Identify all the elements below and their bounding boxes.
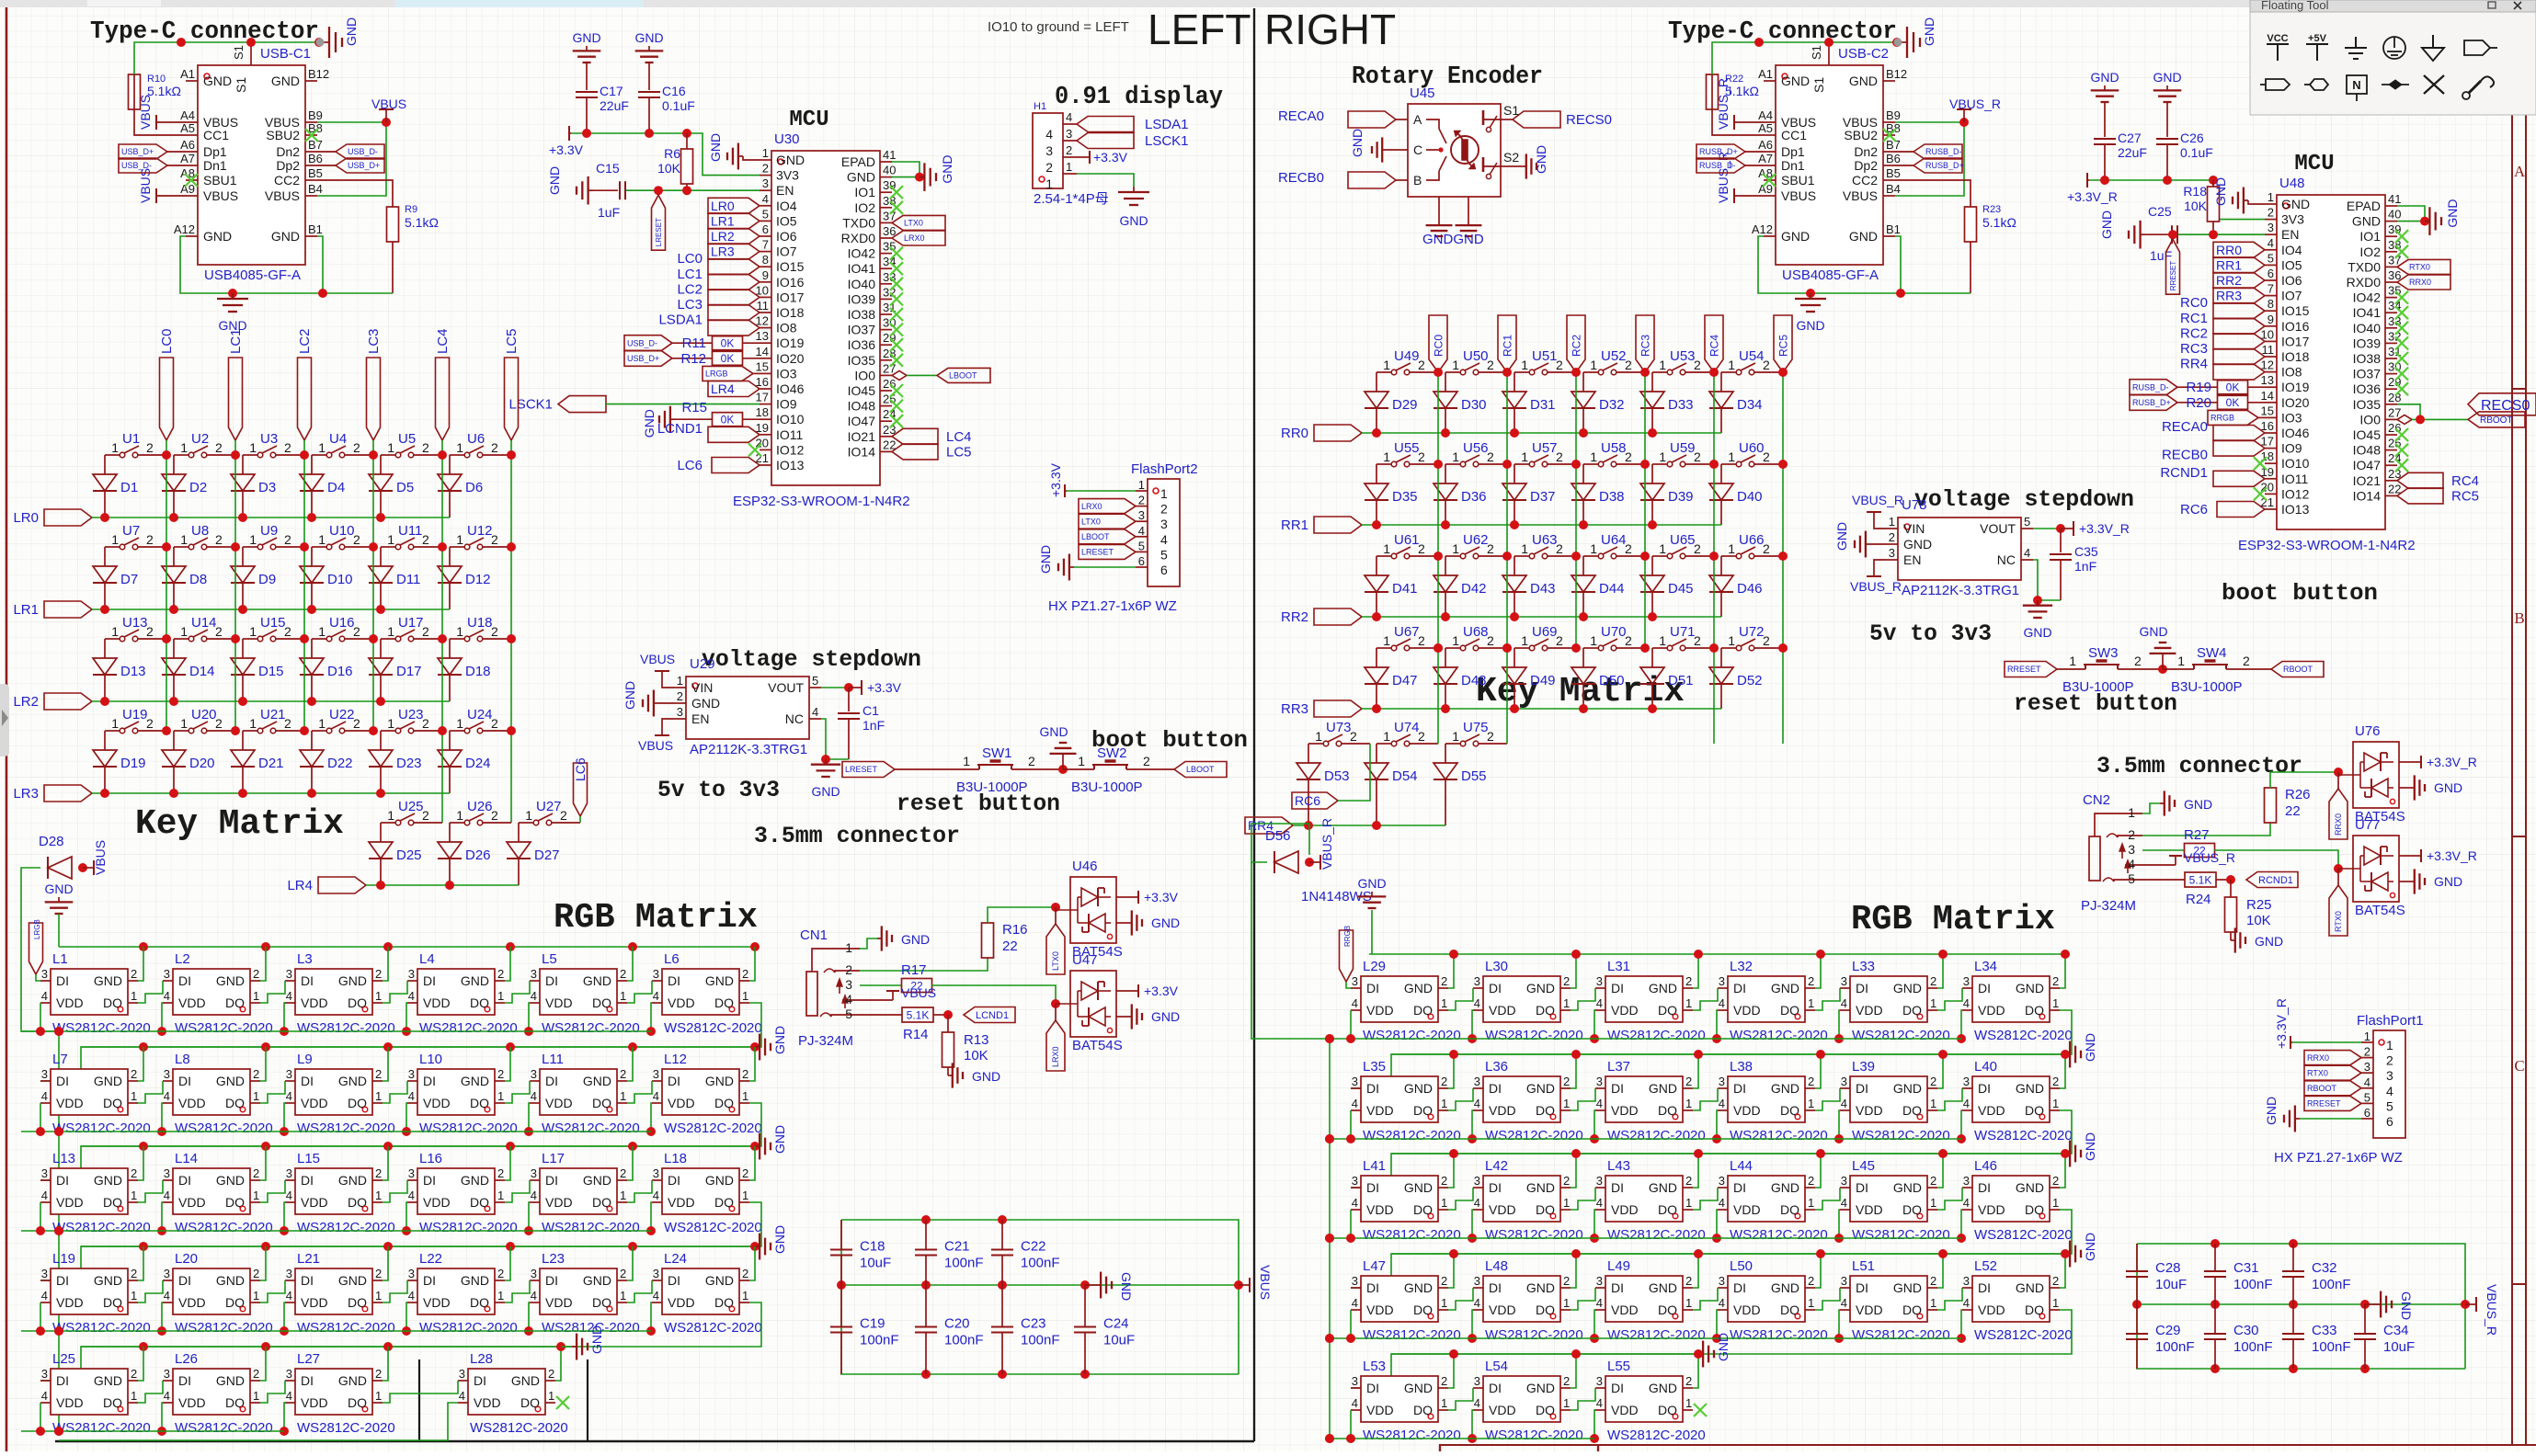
svg-text:VDD: VDD xyxy=(56,1295,84,1310)
svg-text:4: 4 xyxy=(1963,1097,1970,1110)
wire D56 to VBUS vertical xyxy=(1251,862,1330,1039)
net flag LC3 column header xyxy=(366,328,382,440)
svg-text:2: 2 xyxy=(253,1267,259,1280)
svg-text:B1: B1 xyxy=(1886,222,1901,236)
power flag +3.3V_R at VOUT xyxy=(2061,521,2130,536)
svg-text:GND: GND xyxy=(338,1373,367,1388)
svg-text:4: 4 xyxy=(1474,996,1480,1010)
diode D15 xyxy=(231,639,284,701)
svg-text:22uF: 22uF xyxy=(2118,145,2147,160)
svg-text:D37: D37 xyxy=(1530,489,1556,505)
svg-text:4: 4 xyxy=(1352,1296,1358,1310)
wire VDD bus row 2 (right RGB) xyxy=(1325,1134,1961,1143)
svg-text:SW4: SW4 xyxy=(2197,645,2227,661)
svg-text:0K: 0K xyxy=(721,414,735,427)
svg-text:41: 41 xyxy=(883,148,896,162)
svg-text:3: 3 xyxy=(1474,1075,1480,1088)
svg-text:WS2812C-2020: WS2812C-2020 xyxy=(297,1420,395,1436)
svg-text:IO9: IO9 xyxy=(2281,441,2302,456)
net flag LC1 column header xyxy=(228,328,244,440)
svg-text:U74: U74 xyxy=(1394,720,1420,735)
svg-text:SBU2: SBU2 xyxy=(1844,128,1878,142)
title 5v to 3v3 (right) xyxy=(1869,620,1992,647)
svg-text:U14: U14 xyxy=(191,615,217,631)
svg-text:3: 3 xyxy=(1596,1374,1603,1388)
resistor R13 10K xyxy=(942,1015,989,1075)
svg-text:1: 1 xyxy=(762,146,769,160)
svg-text:2: 2 xyxy=(2052,974,2059,988)
svg-text:3: 3 xyxy=(408,1067,415,1081)
diode D18 xyxy=(438,639,491,701)
svg-text:IO20: IO20 xyxy=(2281,395,2310,410)
svg-text:DI: DI xyxy=(423,1273,436,1288)
svg-text:4: 4 xyxy=(1352,1097,1358,1110)
svg-text:GND: GND xyxy=(772,1026,787,1054)
svg-text:4: 4 xyxy=(1474,1396,1480,1410)
svg-text:3: 3 xyxy=(1719,1075,1725,1088)
diode D56 1N4148WS xyxy=(1251,824,1372,904)
diode D3 xyxy=(231,455,276,518)
svg-text:100nF: 100nF xyxy=(944,1333,984,1348)
svg-text:RCND1: RCND1 xyxy=(2160,465,2208,481)
svg-text:2: 2 xyxy=(1685,1374,1692,1388)
svg-text:L5: L5 xyxy=(542,951,557,967)
svg-text:D13: D13 xyxy=(120,664,146,679)
svg-text:SW2: SW2 xyxy=(1097,745,1127,761)
svg-text:DI: DI xyxy=(56,1373,69,1388)
svg-text:4: 4 xyxy=(408,989,415,1003)
svg-text:WS2812C-2020: WS2812C-2020 xyxy=(1485,1428,1583,1443)
net flag USB_D+ (B6) xyxy=(317,158,384,173)
net flag LR1 at MCU xyxy=(708,213,760,229)
tool icon hexagon port xyxy=(2304,79,2328,90)
svg-text:DI: DI xyxy=(56,973,69,988)
svg-text:D50: D50 xyxy=(1599,673,1625,688)
svg-text:GND: GND xyxy=(2264,1097,2279,1125)
svg-text:R12: R12 xyxy=(680,351,706,367)
svg-text:BAT54S: BAT54S xyxy=(2355,903,2405,918)
key switch U26 xyxy=(450,799,511,825)
svg-text:R11: R11 xyxy=(682,336,706,351)
svg-text:GND: GND xyxy=(972,1069,1000,1084)
wire DQ wrap row 4 to row 5 xyxy=(40,1302,761,1381)
net flag RC3 at MCU xyxy=(2180,341,2265,365)
svg-text:3: 3 xyxy=(459,1367,465,1381)
svg-text:17: 17 xyxy=(756,391,769,404)
svg-text:GND: GND xyxy=(2281,197,2310,211)
svg-text:L55: L55 xyxy=(1607,1359,1630,1374)
svg-text:10K: 10K xyxy=(964,1048,988,1064)
svg-text:4: 4 xyxy=(2024,546,2030,560)
diode pair U77 BAT54S xyxy=(2338,817,2477,918)
svg-text:2: 2 xyxy=(1685,1174,1692,1188)
net flag LSCK1 wire to pin IO9 xyxy=(508,396,760,413)
svg-text:H1: H1 xyxy=(1034,101,1046,112)
net flag RRGB at MCU xyxy=(2208,410,2265,425)
svg-text:ESP32-S3-WROOM-1-N4R2: ESP32-S3-WROOM-1-N4R2 xyxy=(2238,538,2416,553)
svg-text:1: 1 xyxy=(253,989,259,1003)
svg-text:4: 4 xyxy=(286,989,292,1003)
svg-text:CN2: CN2 xyxy=(2083,792,2110,808)
wire DQ wrap row 1 to row 2 xyxy=(40,1003,761,1081)
svg-text:1: 1 xyxy=(1383,449,1390,464)
net flag RECB0 at MCU xyxy=(2162,440,2265,463)
svg-text:L38: L38 xyxy=(1730,1059,1753,1075)
svg-text:VDD: VDD xyxy=(178,1395,206,1410)
svg-text:10K: 10K xyxy=(2184,199,2208,213)
no-connect right pin 24 of U48 xyxy=(2395,459,2408,472)
svg-text:3: 3 xyxy=(2268,221,2274,234)
svg-text:WS2812C-2020: WS2812C-2020 xyxy=(664,1320,762,1336)
ground at encoder S2 xyxy=(1513,145,1548,179)
key switch U58 xyxy=(1583,440,1645,467)
svg-text:1: 1 xyxy=(180,532,188,547)
svg-text:1: 1 xyxy=(2052,1097,2059,1110)
svg-text:4: 4 xyxy=(408,1089,415,1103)
grounds at encoder bottom xyxy=(1422,221,1484,247)
svg-text:WS2812C-2020: WS2812C-2020 xyxy=(419,1120,518,1136)
RGB LED L39 xyxy=(1815,1050,1950,1143)
svg-text:2: 2 xyxy=(131,1067,137,1081)
svg-text:6: 6 xyxy=(2386,1114,2393,1129)
svg-text:R26: R26 xyxy=(2285,787,2311,802)
svg-text:VDD: VDD xyxy=(1856,1003,1883,1018)
svg-text:GND: GND xyxy=(847,170,875,185)
RGB LED L38 xyxy=(1693,1050,1828,1143)
svg-text:3: 3 xyxy=(677,705,683,719)
svg-text:C20: C20 xyxy=(944,1316,970,1332)
svg-text:U5: U5 xyxy=(398,431,416,447)
net flag LBOOT at IO0 xyxy=(892,368,990,382)
svg-text:IO20: IO20 xyxy=(776,351,805,366)
svg-text:L7: L7 xyxy=(52,1052,68,1067)
+3.3V rail wire xyxy=(571,129,760,176)
svg-text:2: 2 xyxy=(375,1166,382,1180)
svg-text:D23: D23 xyxy=(396,756,422,771)
svg-text:VDD: VDD xyxy=(1611,1003,1639,1018)
top browser strip xyxy=(0,0,2536,7)
svg-text:B3U-1000P: B3U-1000P xyxy=(2171,679,2243,695)
resistor R14 5.1K xyxy=(860,1007,953,1042)
svg-text:RC3: RC3 xyxy=(1639,335,1651,357)
svg-text:8: 8 xyxy=(2268,297,2274,311)
wire row RR4 xyxy=(1293,821,1445,830)
svg-text:1: 1 xyxy=(249,440,257,455)
svg-text:B3U-1000P: B3U-1000P xyxy=(2062,679,2134,695)
svg-text:13: 13 xyxy=(756,329,769,343)
svg-text:D22: D22 xyxy=(327,756,353,771)
svg-text:LSCK1: LSCK1 xyxy=(508,397,553,413)
svg-text:B6: B6 xyxy=(308,152,323,165)
svg-text:1: 1 xyxy=(2052,996,2059,1010)
svg-text:ESP32-S3-WROOM-1-N4R2: ESP32-S3-WROOM-1-N4R2 xyxy=(733,494,910,509)
diode D47 xyxy=(1365,648,1418,709)
svg-text:IO45: IO45 xyxy=(2353,427,2382,442)
net flag LR1 xyxy=(13,601,92,618)
net flag LR2 xyxy=(13,693,92,710)
svg-text:LR1: LR1 xyxy=(711,213,735,228)
svg-text:AP2112K-3.3TRG1: AP2112K-3.3TRG1 xyxy=(690,742,807,757)
svg-text:D1: D1 xyxy=(120,480,138,495)
svg-text:3: 3 xyxy=(164,1367,170,1381)
svg-text:RR1: RR1 xyxy=(1281,518,1308,533)
net flag RECB0 at encoder B xyxy=(1278,170,1396,188)
svg-text:1: 1 xyxy=(1563,1396,1570,1410)
tool icon wire dot xyxy=(2382,80,2409,89)
svg-text:GND: GND xyxy=(2352,214,2381,229)
svg-text:3: 3 xyxy=(1889,546,1895,560)
resistor R23 5.1k (CC2) xyxy=(1895,180,2016,293)
wire left VBUS vertical xyxy=(54,1027,63,1436)
svg-text:IO38: IO38 xyxy=(848,307,876,322)
svg-text:VBUS_R: VBUS_R xyxy=(1319,818,1334,870)
svg-text:D31: D31 xyxy=(1530,397,1556,413)
svg-text:2: 2 xyxy=(1563,1274,1570,1288)
svg-text:VDD: VDD xyxy=(1733,1202,1761,1217)
ground below R13 xyxy=(948,1063,1000,1087)
svg-text:2: 2 xyxy=(146,532,154,547)
diode D8 xyxy=(162,547,207,609)
svg-text:VDD: VDD xyxy=(1366,1403,1394,1417)
svg-text:1: 1 xyxy=(253,1089,259,1103)
svg-text:R16: R16 xyxy=(1002,922,1028,938)
svg-text:D42: D42 xyxy=(1461,581,1487,597)
svg-text:4: 4 xyxy=(1066,110,1072,124)
key switch U52 xyxy=(1583,348,1645,375)
svg-text:L28: L28 xyxy=(470,1351,493,1367)
svg-text:RBOOT: RBOOT xyxy=(2307,1084,2337,1093)
key switch U65 xyxy=(1652,532,1714,559)
net flag LC1 at MCU xyxy=(677,267,760,290)
svg-text:IO17: IO17 xyxy=(776,290,805,304)
svg-text:+3.3V: +3.3V xyxy=(867,680,902,695)
svg-text:VDD: VDD xyxy=(423,1295,451,1310)
svg-text:RECA0: RECA0 xyxy=(1278,108,1324,124)
svg-text:IO12: IO12 xyxy=(776,442,805,457)
svg-text:3: 3 xyxy=(164,967,170,981)
svg-text:4: 4 xyxy=(1841,1296,1847,1310)
key switch U68 xyxy=(1445,624,1507,651)
svg-text:RTX0: RTX0 xyxy=(2334,911,2343,932)
Type-C connector USB-C2 body xyxy=(1752,42,1907,283)
svg-text:DI: DI xyxy=(545,973,558,988)
wire row RR0 xyxy=(1362,428,1721,438)
svg-text:7: 7 xyxy=(762,238,769,252)
svg-text:5: 5 xyxy=(845,1007,852,1021)
svg-text:1: 1 xyxy=(1685,996,1692,1010)
svg-text:4: 4 xyxy=(1596,1296,1603,1310)
svg-text:2: 2 xyxy=(353,440,360,455)
svg-text:3: 3 xyxy=(1045,143,1053,158)
svg-text:SW1: SW1 xyxy=(982,745,1012,761)
svg-text:C29: C29 xyxy=(2155,1323,2181,1338)
svg-text:WS2812C-2020: WS2812C-2020 xyxy=(52,1120,151,1136)
svg-text:3: 3 xyxy=(408,1166,415,1180)
svg-text:L25: L25 xyxy=(52,1351,75,1367)
svg-text:RBOOT: RBOOT xyxy=(2283,665,2313,674)
svg-text:2: 2 xyxy=(1160,502,1168,517)
svg-text:GND: GND xyxy=(511,1373,540,1388)
svg-text:GND: GND xyxy=(583,973,611,988)
svg-text:LTX0: LTX0 xyxy=(904,219,923,228)
svg-text:U73: U73 xyxy=(1326,720,1352,735)
svg-text:D5: D5 xyxy=(396,480,414,495)
svg-text:1: 1 xyxy=(1590,541,1597,556)
svg-text:USB_D+: USB_D+ xyxy=(121,147,154,156)
svg-text:DI: DI xyxy=(1366,1381,1379,1395)
svg-text:U15: U15 xyxy=(260,615,286,631)
svg-text:IO7: IO7 xyxy=(776,245,797,259)
ground at H1 xyxy=(1118,187,1149,228)
tool icon no-connect X xyxy=(2424,75,2444,94)
svg-text:USB-C1: USB-C1 xyxy=(260,46,311,62)
net flag LR0 at MCU xyxy=(708,198,760,213)
wire pin3 through R17 xyxy=(860,962,1060,1008)
svg-text:3: 3 xyxy=(1963,1075,1970,1088)
svg-text:3: 3 xyxy=(1160,517,1168,531)
capacitor C30 100nF xyxy=(2204,1304,2273,1369)
capacitor C28 10uF xyxy=(2126,1244,2187,1304)
svg-text:VDD: VDD xyxy=(1733,1302,1761,1317)
svg-text:0K: 0K xyxy=(721,337,735,350)
svg-text:1: 1 xyxy=(375,1189,382,1202)
svg-text:VBUS_R: VBUS_R xyxy=(2184,850,2235,865)
svg-text:3: 3 xyxy=(1719,974,1725,988)
svg-text:A7: A7 xyxy=(1758,152,1773,165)
key switch U61 xyxy=(1377,532,1438,559)
svg-text:4: 4 xyxy=(41,1189,48,1202)
capacitor C16 0.1uF xyxy=(638,63,695,133)
svg-text:1: 1 xyxy=(1521,358,1528,372)
svg-text:WS2812C-2020: WS2812C-2020 xyxy=(1974,1227,2073,1243)
diode D42 xyxy=(1434,556,1487,617)
svg-text:DI: DI xyxy=(301,1273,314,1288)
svg-text:GND: GND xyxy=(705,1273,734,1288)
svg-text:1: 1 xyxy=(1808,1296,1814,1310)
svg-text:IO2: IO2 xyxy=(854,200,875,215)
svg-text:IO36: IO36 xyxy=(2353,381,2382,396)
header LEFT xyxy=(1148,6,1251,53)
svg-text:4: 4 xyxy=(2268,236,2274,250)
net flag RUSB_D+ (B6) xyxy=(1895,158,1964,173)
svg-text:GND: GND xyxy=(2184,797,2212,812)
svg-text:GND: GND xyxy=(271,74,300,88)
svg-text:GND: GND xyxy=(691,696,720,711)
svg-text:5: 5 xyxy=(1160,547,1168,562)
svg-text:+3.3V: +3.3V xyxy=(1144,984,1179,998)
wire VDD bus row 1 (right RGB) xyxy=(1325,1034,1961,1043)
svg-text:RC4: RC4 xyxy=(1708,335,1720,357)
ground flag left of C25 xyxy=(2099,210,2145,249)
svg-text:D45: D45 xyxy=(1668,581,1694,597)
svg-text:U64: U64 xyxy=(1601,532,1627,548)
svg-text:4: 4 xyxy=(531,1189,537,1202)
diode D13 xyxy=(93,639,146,701)
ground at EPAD right xyxy=(2425,199,2460,234)
svg-text:A1: A1 xyxy=(180,67,195,81)
ground at U29 GND pin xyxy=(623,681,674,717)
svg-text:DI: DI xyxy=(668,1074,680,1088)
key switch U23 xyxy=(381,707,442,734)
svg-text:GND: GND xyxy=(203,74,232,88)
key switch U71 xyxy=(1652,624,1714,651)
svg-text:D46: D46 xyxy=(1737,581,1763,597)
svg-text:D4: D4 xyxy=(327,480,345,495)
svg-text:1: 1 xyxy=(1078,754,1085,768)
net flag LRGB feed xyxy=(29,919,43,981)
svg-text:IO1: IO1 xyxy=(2359,229,2381,244)
svg-text:IO3: IO3 xyxy=(2281,410,2302,425)
svg-text:22uF: 22uF xyxy=(600,98,629,113)
svg-text:3: 3 xyxy=(1963,974,1970,988)
net flag LRX0 at FlashPort2 xyxy=(1079,499,1136,514)
svg-text:1: 1 xyxy=(1659,358,1666,372)
key switch U1 xyxy=(105,431,166,458)
svg-text:GND: GND xyxy=(1404,1180,1433,1195)
svg-text:2: 2 xyxy=(620,1067,626,1081)
svg-text:IO13: IO13 xyxy=(776,458,805,472)
svg-text:1: 1 xyxy=(1659,633,1666,648)
wire pin1 to ground xyxy=(860,938,877,949)
no-connect IO12 xyxy=(748,443,761,456)
svg-text:GND: GND xyxy=(705,1074,734,1088)
svg-text:4: 4 xyxy=(1138,524,1145,538)
RGB LED L32 xyxy=(1693,950,1828,1043)
wire GND bus row 1 (left RGB) xyxy=(59,942,760,951)
wire VDD bus row 4 (left RGB) xyxy=(21,1326,651,1336)
svg-text:D28: D28 xyxy=(39,834,64,849)
capacitor C25 1uF xyxy=(2145,204,2265,263)
power flag VBUS_R at cap bank xyxy=(2465,1284,2499,1336)
net flag RRESET xyxy=(2005,662,2057,677)
wire row LR0 xyxy=(92,513,450,522)
svg-text:2: 2 xyxy=(1685,1274,1692,1288)
svg-text:U25: U25 xyxy=(398,799,424,814)
svg-text:2: 2 xyxy=(497,1166,504,1180)
svg-text:3: 3 xyxy=(2364,1060,2370,1074)
svg-text:GND: GND xyxy=(94,1273,122,1288)
svg-text:DI: DI xyxy=(178,1173,191,1188)
svg-text:IO18: IO18 xyxy=(2281,349,2310,364)
wire GND bus row 3 (right RGB) xyxy=(1391,1153,2065,1155)
svg-text:1: 1 xyxy=(1685,1296,1692,1310)
svg-text:CC2: CC2 xyxy=(274,173,300,188)
svg-text:D9: D9 xyxy=(258,572,276,587)
svg-text:2: 2 xyxy=(742,967,748,981)
wire row RR3 xyxy=(1362,704,1721,713)
svg-text:GND: GND xyxy=(583,1074,611,1088)
svg-text:GND: GND xyxy=(2090,70,2119,85)
svg-text:2: 2 xyxy=(497,1267,504,1280)
RGB LED L15 xyxy=(260,1146,395,1235)
RGB LED L27 xyxy=(260,1347,395,1436)
svg-text:HX PZ1.27-1x6P WZ: HX PZ1.27-1x6P WZ xyxy=(1048,598,1177,614)
svg-text:GND: GND xyxy=(2434,874,2462,889)
svg-text:RRX0: RRX0 xyxy=(2409,278,2431,287)
diode D36 xyxy=(1434,464,1487,525)
wire DQ wrap row 3 to row 4 xyxy=(40,1202,761,1280)
svg-text:DI: DI xyxy=(1489,1381,1502,1395)
svg-text:U60: U60 xyxy=(1739,440,1765,456)
svg-text:GND: GND xyxy=(1649,1280,1677,1295)
VBUS power flag A9 xyxy=(138,168,186,203)
svg-text:VDD: VDD xyxy=(56,1395,84,1410)
svg-text:IO6: IO6 xyxy=(776,229,797,244)
svg-text:2: 2 xyxy=(253,1067,259,1081)
power flag VBUS at cap bank xyxy=(1239,1265,1273,1300)
no-connect A8 xyxy=(185,174,198,187)
svg-text:4: 4 xyxy=(1045,127,1053,142)
